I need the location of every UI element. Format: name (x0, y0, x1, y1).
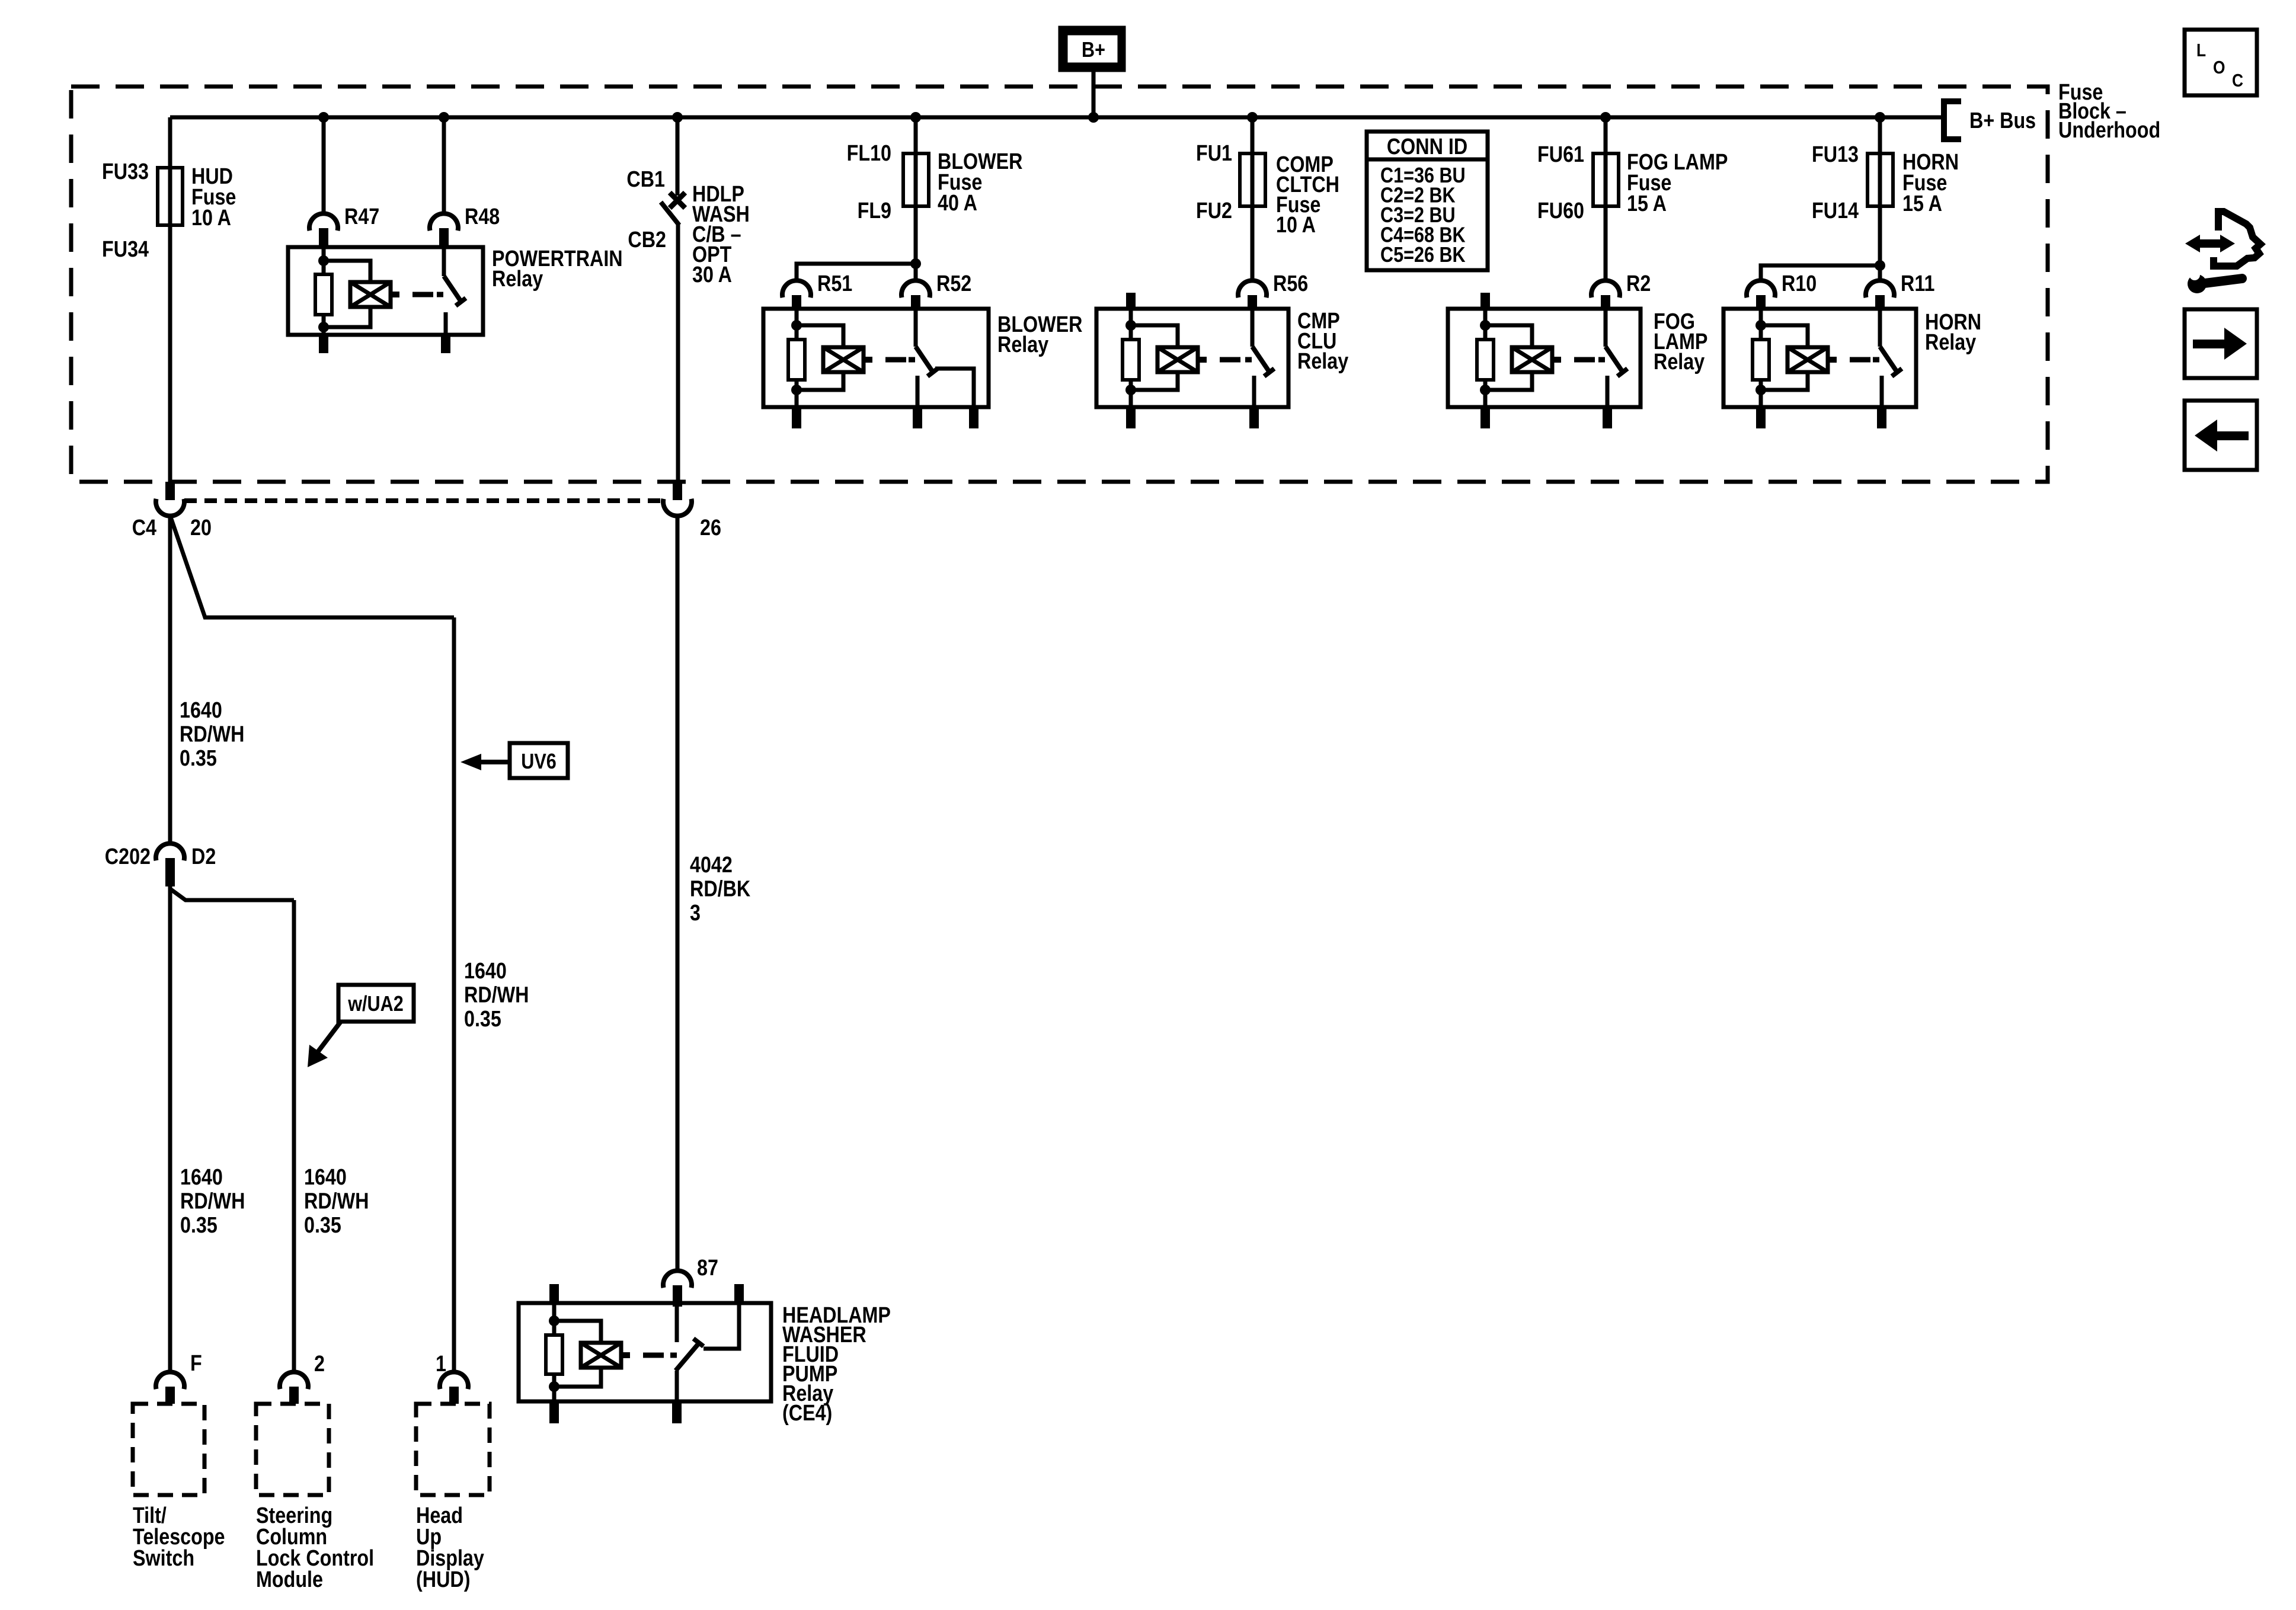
junction dot CB tap (672, 112, 683, 123)
label FU14 (1812, 199, 1859, 223)
label CB1 (626, 167, 665, 192)
relay HEADLAMP WASHER floating left pin stub (549, 1284, 559, 1303)
wire branch down to HUD display (452, 617, 456, 1371)
label Fuse Block - Underhood (2058, 80, 2160, 143)
wire FU2 to R56 (1251, 206, 1255, 279)
svg-text:B+ Bus: B+ Bus (1969, 108, 2036, 133)
junction dot FU13 tap (1875, 112, 1885, 123)
B+ Bus bracket (1944, 101, 1961, 139)
svg-text:FL9: FL9 (858, 199, 891, 223)
connector R47 arc (309, 213, 338, 231)
wire C202 diagonal branch (170, 889, 294, 900)
junction dot R48 tap (439, 112, 449, 123)
svg-text:RD/WH: RD/WH (180, 1189, 245, 1214)
connector C4 pin 20 cup (156, 499, 184, 516)
relay HEADLAMP WASHER bottom stub switch pin (672, 1401, 682, 1423)
svg-text:FU1: FU1 (1196, 141, 1232, 166)
wire B+ to bus (1092, 72, 1096, 117)
CONN ID title (1387, 135, 1467, 159)
svg-text:26: 26 (700, 516, 721, 540)
connector F arc (156, 1372, 184, 1389)
svg-text:Relay: Relay (1297, 349, 1349, 374)
svg-text:R56: R56 (1273, 271, 1308, 296)
label Steering Column Lock Control Module (256, 1503, 374, 1592)
label F (190, 1351, 202, 1376)
label 2 (314, 1352, 325, 1377)
wire bus to R47 (322, 117, 326, 214)
svg-text:FU13: FU13 (1812, 142, 1859, 167)
junction dot FU1 tap (1247, 112, 1258, 123)
CONN ID rows (1380, 164, 1466, 267)
B+ bus wire (170, 116, 1944, 120)
label FU61 (1537, 142, 1584, 167)
LOC reference box (2185, 30, 2257, 95)
label Head Up Display (HUD) (416, 1503, 484, 1592)
wire CB2 to block edge (676, 224, 680, 484)
svg-text:15 A: 15 A (1627, 191, 1667, 216)
relay FOG LAMP bottom stub switch pin (1603, 407, 1612, 428)
svg-text:4042: 4042 (690, 853, 733, 878)
svg-text:RD/WH: RD/WH (180, 722, 244, 747)
wire bus to FU13 fuse (1878, 117, 1882, 153)
power distribution icon car outline (2214, 212, 2260, 266)
svg-text:10 A: 10 A (1276, 213, 1316, 238)
relay BLOWER bottom stub output pin (969, 407, 978, 428)
fuse FL10/FL9 BLOWER (903, 153, 929, 206)
connector F stub (165, 1387, 175, 1404)
connector C202 arc (156, 843, 184, 860)
label R52 (936, 271, 971, 296)
connector 2 stub (289, 1387, 299, 1404)
relay HEADLAMP WASHER switch (676, 1305, 739, 1401)
svg-text:L: L (2196, 40, 2206, 60)
label FU1 (1196, 141, 1232, 166)
svg-text:CONN ID: CONN ID (1387, 135, 1467, 159)
svg-text:C: C (2232, 71, 2243, 91)
label FU2 (1196, 199, 1232, 223)
svg-text:R51: R51 (817, 271, 852, 296)
label HORN Fuse 15 A (1902, 150, 1959, 216)
relay BLOWER box (763, 309, 989, 407)
relay POWERTRAIN box (288, 247, 483, 335)
label HUD Fuse 10 A (191, 164, 236, 231)
label HDLP WASH C/B OPT 30 A (692, 182, 750, 287)
label 20 (190, 516, 212, 540)
svg-text:F: F (190, 1351, 202, 1376)
svg-text:FU2: FU2 (1196, 199, 1232, 223)
svg-text:1640: 1640 (180, 1165, 223, 1190)
svg-text:0.35: 0.35 (180, 1213, 218, 1238)
label C4 (132, 516, 157, 540)
connector 2 arc (280, 1372, 308, 1389)
svg-text:UV6: UV6 (521, 750, 557, 774)
svg-text:R10: R10 (1782, 271, 1817, 296)
relay HEADLAMP WASHER output pin stub (734, 1284, 744, 1303)
connector 87 arc (663, 1270, 692, 1288)
label BLOWER Relay (997, 312, 1082, 357)
connector 1 arc (440, 1372, 468, 1389)
connector R48 stub (439, 228, 449, 247)
svg-text:CB1: CB1 (626, 167, 665, 192)
label C202 (105, 844, 151, 869)
label wire 4042 RD/BK 3 (690, 853, 751, 926)
label wire 1640 RD/WH 0.35 (mid) (464, 959, 529, 1032)
svg-text:C4: C4 (132, 516, 157, 540)
svg-text:Underhood: Underhood (2058, 118, 2160, 143)
CONN ID table box (1367, 132, 1488, 270)
svg-text:3: 3 (690, 901, 701, 926)
component box Head Up Display (416, 1404, 490, 1495)
fuse FU33/FU34 HUD (158, 168, 183, 225)
label FOG LAMP Fuse 15 A (1627, 150, 1728, 216)
wire bus to HUD fuse (168, 117, 172, 168)
svg-text:(CE4): (CE4) (782, 1401, 832, 1426)
connector C4 pin 20 stub (165, 482, 175, 500)
junction dot B+ drop (1088, 112, 1099, 123)
label FL9 (858, 199, 891, 223)
connector row dotted line C4 to 26 (184, 498, 663, 503)
label D2 (191, 844, 216, 869)
wire bus to FU1 fuse (1251, 117, 1255, 153)
connector R2 arc (1591, 280, 1620, 297)
wire bus to CB1 (676, 117, 680, 196)
relay CMP CLU box (1096, 309, 1288, 407)
B+ power feed box (1059, 26, 1125, 72)
label FU34 (102, 237, 149, 262)
power distribution icon wrench (2186, 267, 2242, 293)
label FL10 (847, 141, 891, 166)
label B+ Bus (1969, 108, 2036, 133)
label R2 (1626, 271, 1651, 296)
svg-text:D2: D2 (191, 844, 216, 869)
svg-text:FU33: FU33 (102, 159, 149, 184)
wire bus to FU61 fuse (1604, 117, 1608, 153)
svg-text:0.35: 0.35 (180, 746, 217, 771)
w/UA2 callout box (338, 985, 414, 1022)
relay HEADLAMP WASHER box (519, 1303, 771, 1401)
breaker blade CB1-CB2 (661, 202, 679, 225)
svg-text:Module: Module (256, 1567, 323, 1592)
svg-text:O: O (2213, 57, 2225, 78)
junction dot R47 tap (318, 112, 329, 123)
label FU60 (1537, 199, 1584, 223)
wire C202 to F (168, 886, 172, 1371)
svg-text:(HUD): (HUD) (416, 1567, 470, 1592)
UV6 callout box (510, 743, 568, 778)
svg-text:R48: R48 (465, 204, 500, 229)
svg-text:B+: B+ (1082, 39, 1105, 62)
svg-text:RD/BK: RD/BK (690, 876, 751, 901)
svg-text:0.35: 0.35 (464, 1007, 501, 1032)
label R51 (817, 271, 852, 296)
relay FOG LAMP box (1448, 309, 1641, 407)
label Tilt/Telescope Switch (133, 1503, 225, 1571)
wire bus to R48 (442, 117, 446, 214)
svg-text:10 A: 10 A (191, 206, 231, 231)
wire FU14 to junction (1878, 206, 1882, 265)
relay BLOWER switch output L-wire (935, 369, 974, 407)
svg-text:0.35: 0.35 (304, 1213, 341, 1238)
label 26 (700, 516, 721, 540)
svg-text:1640: 1640 (304, 1165, 347, 1190)
label R56 (1273, 271, 1308, 296)
wire branch to R10 (1761, 265, 1880, 279)
relay HEADLAMP WASHER actuator dashes (643, 1353, 677, 1358)
svg-text:FU60: FU60 (1537, 199, 1584, 223)
junction dot R10 branch (1875, 260, 1885, 271)
svg-text:Relay: Relay (1654, 350, 1705, 375)
connector R10 stub (1756, 295, 1766, 309)
svg-text:w/UA2: w/UA2 (347, 993, 403, 1016)
svg-text:Switch: Switch (133, 1546, 194, 1571)
label CB2 (628, 228, 666, 252)
back arrow box (2185, 401, 2257, 470)
wire C4 diagonal branch (170, 516, 454, 617)
label R48 (465, 204, 500, 229)
label BLOWER Fuse 40 A (938, 149, 1022, 216)
svg-text:RD/WH: RD/WH (464, 982, 529, 1007)
connector C202 stub (165, 858, 175, 886)
label FOG LAMP Relay (1654, 309, 1707, 375)
svg-text:Relay: Relay (492, 267, 543, 292)
fuse FU61/FU60 FOG LAMP (1593, 153, 1619, 206)
label CMP CLU Relay (1297, 309, 1349, 374)
svg-text:R47: R47 (344, 204, 379, 229)
connector R10 arc (1747, 280, 1775, 297)
connector R51 arc (782, 280, 811, 297)
relay CMP CLU floating coil pin stub (1126, 293, 1136, 309)
label R47 (344, 204, 379, 229)
wire FL9 down to branch (914, 206, 918, 264)
relay CMP CLU bottom stub switch pin (1249, 407, 1259, 428)
wire bus to FL10 fuse (914, 117, 918, 153)
label wire 1640 RD/WH 0.35 (bottom mid) (304, 1165, 369, 1238)
component box Steering Column Lock Control Module (256, 1404, 329, 1495)
UV6 arrow (461, 754, 511, 770)
relay FOG LAMP internals (1477, 309, 1627, 407)
svg-text:1640: 1640 (464, 959, 507, 984)
svg-text:C5=26 BK: C5=26 BK (1380, 244, 1466, 267)
fuse FU13/FU14 HORN (1868, 153, 1893, 206)
label 1 (436, 1352, 446, 1377)
svg-text:87: 87 (697, 1256, 718, 1281)
connector R51 stub (792, 295, 801, 309)
svg-text:FU14: FU14 (1812, 199, 1859, 223)
relay POWERTRAIN bottom stub coil pin (319, 335, 328, 353)
svg-text:R2: R2 (1626, 271, 1651, 296)
breaker CB1 X mark (670, 193, 685, 208)
relay HORN internals (1753, 309, 1902, 407)
svg-text:1640: 1640 (180, 698, 222, 723)
relay FOG LAMP bottom stub coil pin (1480, 407, 1490, 428)
wire branch to R52 (914, 264, 918, 279)
connector R11 arc (1866, 280, 1894, 297)
svg-text:RD/WH: RD/WH (304, 1189, 369, 1214)
svg-text:40 A: 40 A (938, 191, 977, 216)
wire HUD fuse to block edge (168, 225, 172, 484)
wire 26 down to relay 87 (676, 516, 680, 1270)
connector R2 stub (1601, 295, 1610, 309)
svg-text:20: 20 (190, 516, 212, 540)
wire branch to R51 (797, 264, 916, 279)
svg-text:C202: C202 (105, 844, 151, 869)
label wire 1640 RD/WH 0.35 (upper) (180, 698, 244, 771)
label FU13 (1812, 142, 1859, 167)
relay HORN bottom stub coil pin (1756, 407, 1766, 428)
svg-text:Relay: Relay (1925, 330, 1977, 355)
connector R56 stub (1248, 295, 1257, 309)
label 87 (697, 1256, 718, 1281)
connector R47 stub (319, 228, 328, 247)
relay POWERTRAIN bottom stub switch pin (441, 335, 450, 353)
relay HEADLAMP WASHER coil side (546, 1303, 630, 1401)
label R11 (1901, 271, 1934, 296)
relay BLOWER internals (788, 309, 938, 407)
connector R52 arc (901, 280, 930, 297)
junction dot FL9 branch (910, 258, 921, 269)
connector R48 arc (430, 213, 458, 231)
svg-text:R52: R52 (936, 271, 971, 296)
relay HEADLAMP WASHER bottom stub coil pin (549, 1401, 559, 1423)
connector R11 stub (1875, 295, 1885, 309)
forward arrow box (2185, 309, 2257, 378)
wire junction to R11 (1878, 265, 1882, 279)
relay POWERTRAIN internals (315, 247, 466, 335)
label COMP CLTCH Fuse 10 A (1276, 152, 1339, 238)
connector pin 26 cup (663, 499, 692, 516)
label HEADLAMP WASHER FLUID PUMP Relay (CE4) (782, 1303, 891, 1426)
svg-text:30 A: 30 A (692, 263, 732, 287)
svg-text:Relay: Relay (997, 332, 1049, 357)
relay HORN box (1723, 309, 1916, 407)
svg-text:2: 2 (314, 1352, 325, 1377)
label HORN Relay (1925, 310, 1981, 355)
w/UA2 arrow (308, 1022, 341, 1067)
relay CMP CLU internals (1123, 309, 1274, 407)
component box Tilt/Telescope Switch (133, 1404, 204, 1495)
junction dot FL10 tap (910, 112, 921, 123)
svg-text:R11: R11 (1901, 271, 1934, 296)
label wire 1640 RD/WH 0.35 (bottom left) (180, 1165, 245, 1238)
relay BLOWER bottom stub coil pin (792, 407, 801, 428)
relay FOG LAMP floating coil pin stub (1480, 293, 1490, 309)
svg-text:FL10: FL10 (847, 141, 891, 166)
svg-text:FU34: FU34 (102, 237, 149, 262)
power distribution icon double arrow (2185, 235, 2235, 252)
connector R56 arc (1238, 280, 1267, 297)
svg-text:FU61: FU61 (1537, 142, 1584, 167)
relay HORN bottom stub switch pin (1877, 407, 1886, 428)
svg-text:1: 1 (436, 1352, 446, 1377)
svg-text:15 A: 15 A (1902, 191, 1942, 216)
wire C4 to C202 (168, 516, 172, 842)
label POWERTRAIN Relay (492, 247, 623, 292)
fuse block underhood dashed box (71, 87, 2048, 482)
label R10 (1782, 271, 1817, 296)
connector 1 stub (449, 1387, 459, 1404)
junction dot FU61 tap (1600, 112, 1611, 123)
relay BLOWER bottom stub switch pin (913, 407, 922, 428)
fuse FU1/FU2 COMP CLTCH (1240, 153, 1265, 206)
connector pin 26 stub (673, 482, 682, 500)
connector R52 stub (911, 295, 920, 309)
wire branch down to steering module (292, 900, 296, 1371)
connector 87 stub (673, 1285, 682, 1307)
wire FU60 to R2 (1604, 206, 1608, 279)
relay CMP CLU bottom stub coil pin (1126, 407, 1136, 428)
label FU33 (102, 159, 149, 184)
svg-text:CB2: CB2 (628, 228, 666, 252)
